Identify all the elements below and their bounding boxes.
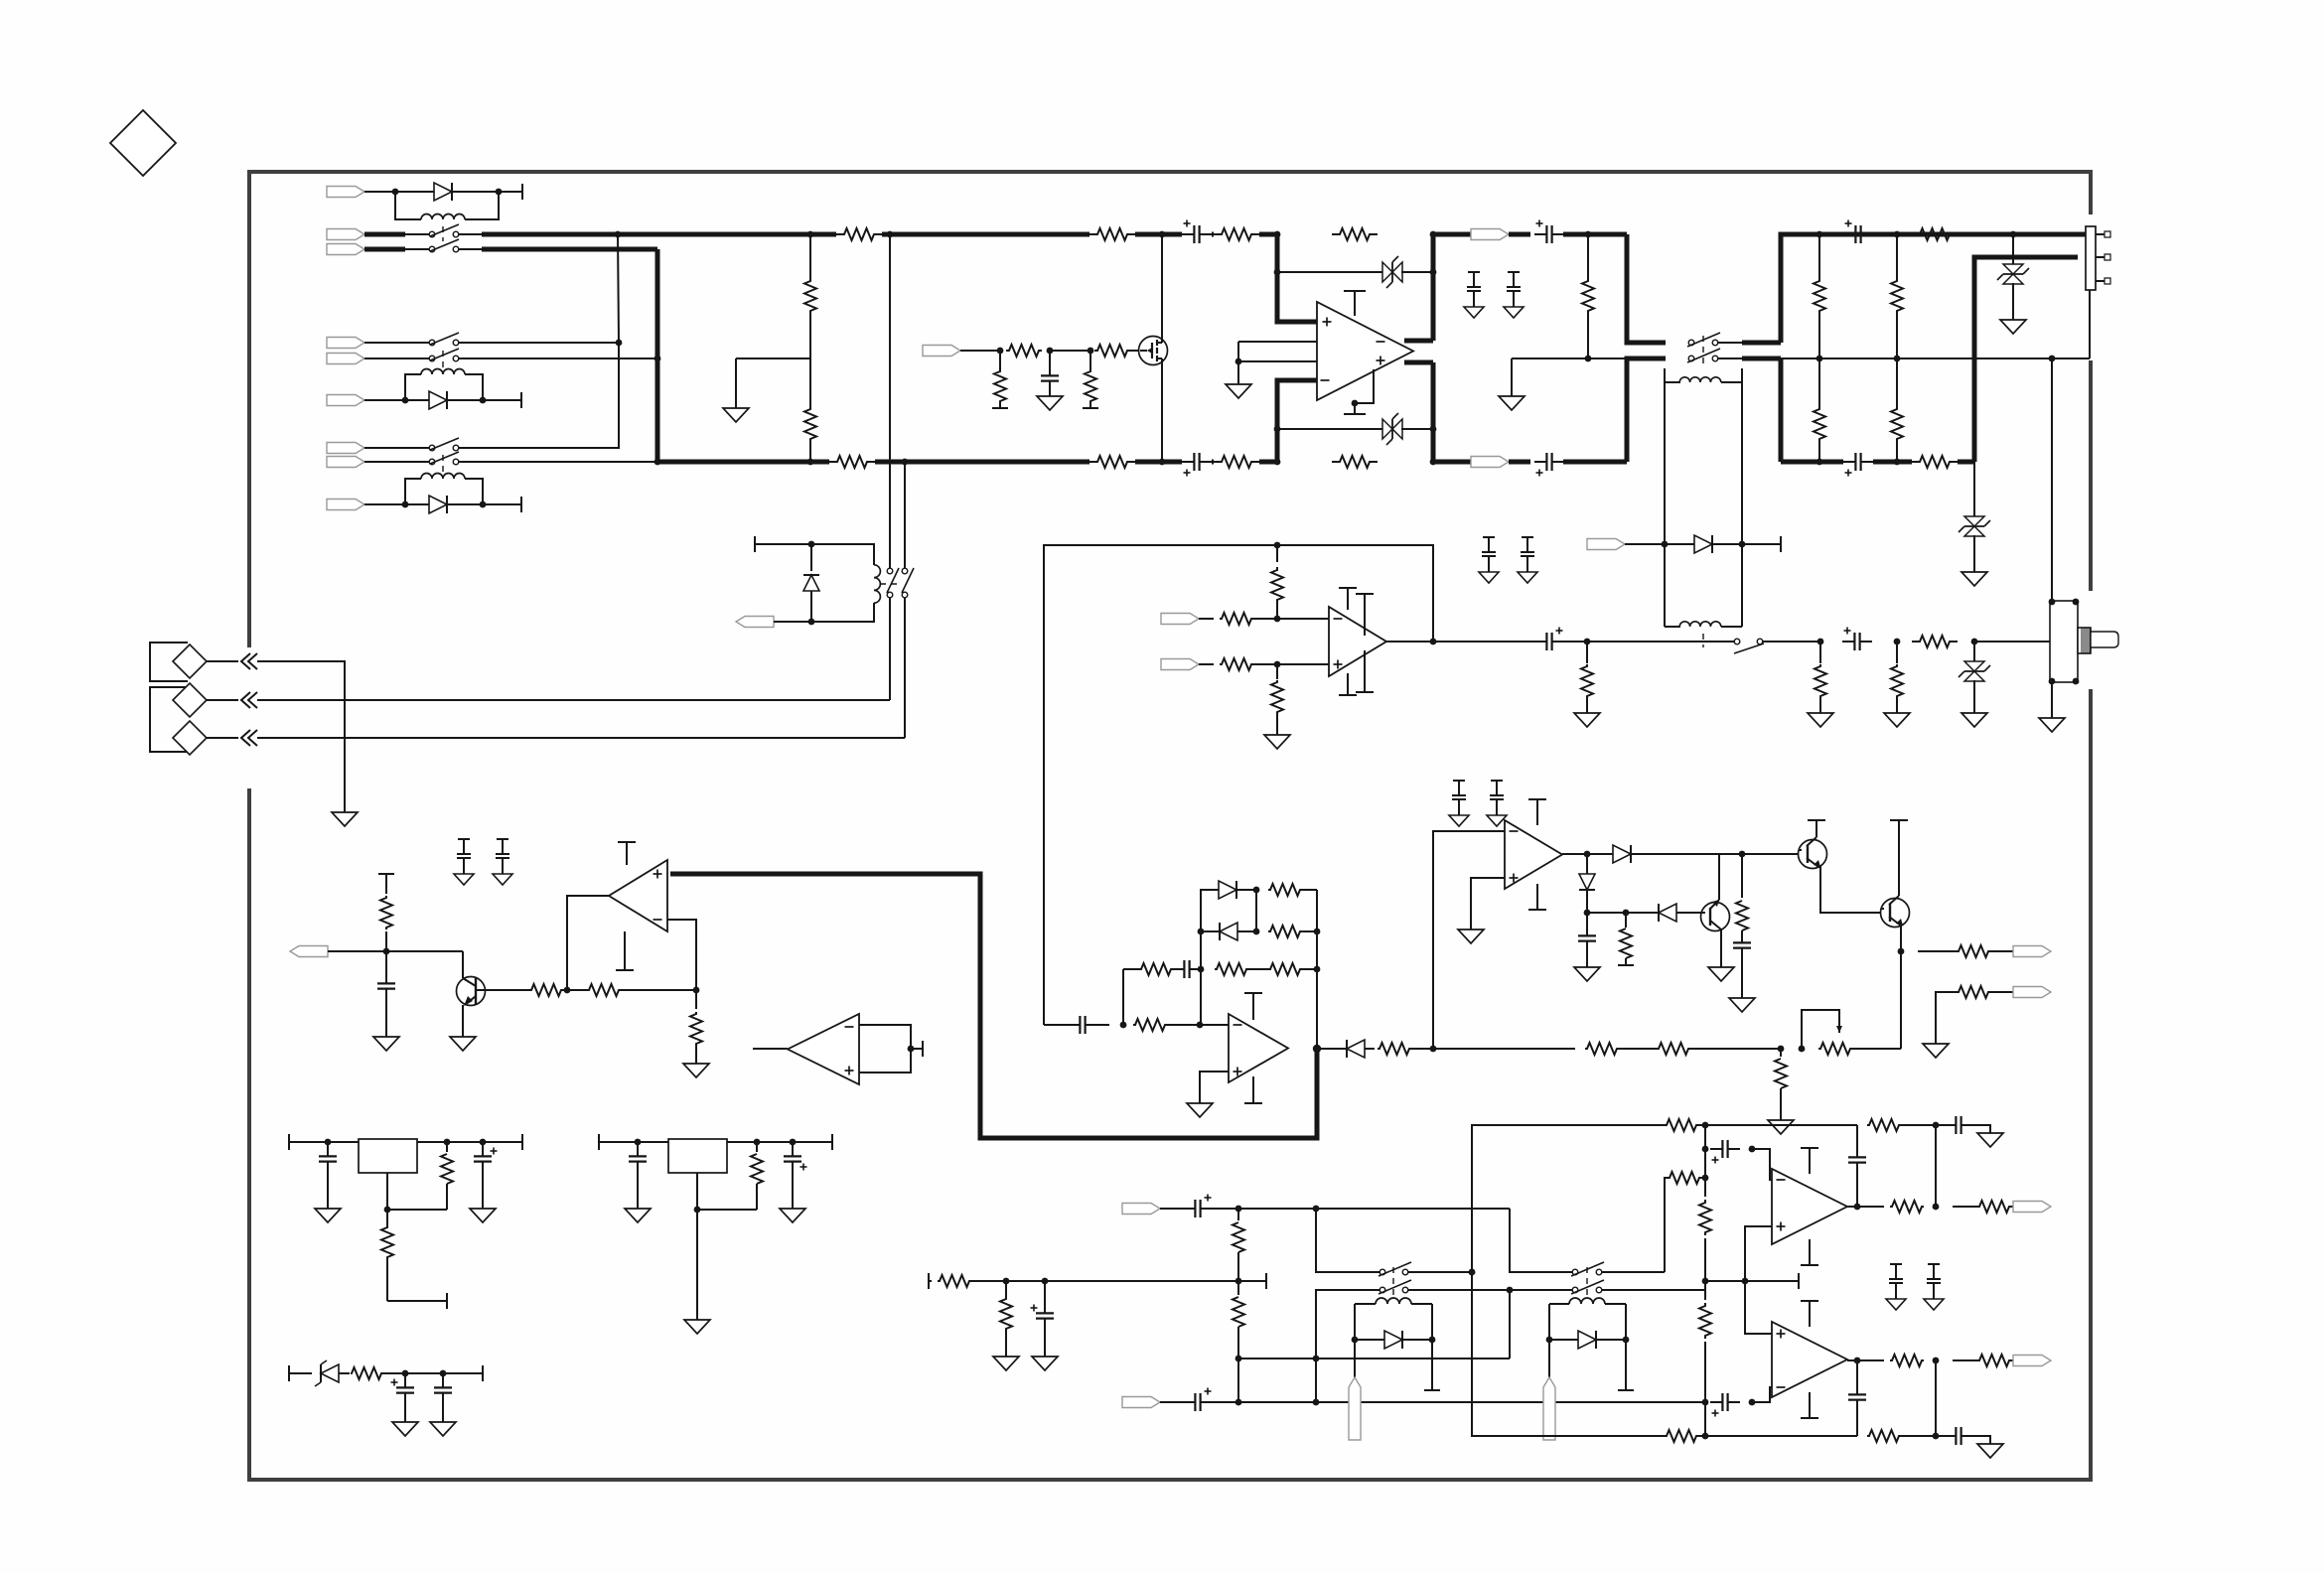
flag U3 in- [1161, 614, 1214, 625]
wire K2b row2 to cold corner [458, 461, 657, 463]
op-amp U3 [1329, 607, 1386, 676]
relay K7 drive [1313, 1304, 1436, 1361]
node mid tap [1742, 1278, 1749, 1285]
node U8 out [1854, 1358, 1861, 1364]
resistor R_hp_shunt [1581, 642, 1593, 713]
node U5 out [1584, 851, 1591, 858]
resistor R_hpoutB [1936, 986, 2013, 1044]
resistor R_xlr_shunt1 [1814, 234, 1825, 358]
ground hp3 [1884, 713, 1910, 727]
resistor R_hpoutA [1918, 945, 2013, 957]
flyback diode D_K2b [405, 496, 483, 513]
resistor R_g1 [1006, 345, 1042, 357]
wire K2a row2 to cold [458, 357, 657, 359]
resistor R_U3b [1220, 658, 1329, 670]
node mosfet drain [1159, 231, 1166, 238]
cap C_fb8 [1848, 1360, 1866, 1436]
mid sense right [1781, 357, 2090, 359]
relay K1 contact a [429, 224, 459, 237]
relay K1 coil [395, 192, 499, 219]
U6 minus mark [845, 1026, 854, 1028]
wire xlr bot bus [1781, 460, 1912, 465]
wire col 1717 a [1704, 1149, 1706, 1178]
cap C_out_top [1534, 220, 1588, 244]
chevron P2 [241, 692, 257, 708]
zener ref row [289, 1360, 483, 1386]
feedback bracket [1469, 1125, 1665, 1436]
cap C_VR2in [629, 1142, 647, 1209]
ground zref2 [430, 1422, 456, 1436]
resistor R_Q1b [378, 874, 394, 951]
relay K4 contact a [1687, 333, 1720, 347]
input flag IN2- [327, 354, 430, 364]
U8 minus mark [1777, 1386, 1786, 1388]
U1 plus in mark [1323, 318, 1332, 327]
ground div cap [1032, 1357, 1058, 1370]
relay K7 contacts [1379, 1262, 1411, 1294]
U1 power pin top [1344, 291, 1366, 316]
resistor R_out_shunt_top [1582, 234, 1594, 358]
node x623 row1 [616, 340, 623, 347]
wire K7 row1 right [1408, 1269, 1475, 1276]
resistor R_U3gnd [1271, 664, 1283, 735]
cap C_out7 [1936, 1116, 1990, 1134]
ground zref1 [392, 1422, 418, 1436]
resistor R_pad1 [804, 234, 816, 358]
pin connector K7 [1349, 1340, 1361, 1440]
cap C_out8 [1936, 1427, 1990, 1445]
ground hp shunt [1574, 713, 1600, 727]
node mid sense left [1585, 356, 1592, 362]
relay K8 contacts [1571, 1262, 1604, 1294]
wire hot bus from K1 [458, 233, 1277, 235]
flag OUT- net [1433, 457, 1530, 468]
transistor Q4 [1881, 820, 1910, 951]
wire VR1 out rail [417, 1134, 522, 1150]
cap C_div [1031, 1281, 1055, 1357]
ground HP B [1923, 1044, 1949, 1058]
input flag IN1+ [327, 229, 430, 240]
ground U4 plus [1187, 1103, 1213, 1117]
node hp c [1894, 639, 1901, 645]
terminal K1 [499, 184, 522, 200]
op-amp U4 [1229, 1014, 1288, 1082]
node VR1 in [325, 1139, 332, 1146]
node U1 in- corner [1274, 459, 1281, 466]
decoupling cap pair E [1449, 781, 1507, 826]
decoupling cap pair C [454, 839, 512, 885]
cap C_VR2out [784, 1142, 807, 1209]
U1 out- mark [1377, 341, 1385, 343]
resistor R_c1 [486, 984, 567, 996]
U1 minus in mark [1321, 379, 1330, 381]
cap C_out_bot [1534, 453, 1588, 477]
terminal K45 [1742, 536, 1781, 552]
cap C_xlr_top [1843, 220, 1873, 244]
relay K2b drive flag [327, 500, 405, 510]
transistor Q2 [1799, 820, 1882, 913]
U2 minus wire [667, 920, 696, 990]
node tvs top [2010, 231, 2017, 238]
flag HP out A [2013, 946, 2051, 957]
relay K6 contact 2 [902, 568, 914, 598]
ground U1 vocm [1226, 384, 1251, 398]
cap C_in7 [1710, 1140, 1740, 1164]
relay K6 coil [874, 565, 880, 603]
wire Q3 collector [1720, 937, 1722, 967]
resistor R_hp3 [1891, 642, 1903, 713]
node sense r1 [1816, 356, 1823, 362]
relay K4 coil box [1665, 368, 1742, 382]
node U3 out [1430, 639, 1437, 645]
node retA a [1235, 1206, 1242, 1213]
ground Z5 [1961, 713, 1987, 727]
U4 minus mark [1234, 1024, 1242, 1026]
ground gate cap [1037, 396, 1063, 410]
node hp d [1971, 639, 1978, 645]
resistor R_col7 [1699, 1178, 1711, 1281]
relay K8 dashed [1586, 1267, 1588, 1297]
diode D_K6 [803, 544, 819, 622]
relay K8 drive [1546, 1304, 1630, 1349]
ctl mid row [1587, 912, 1659, 914]
wire U8 minus [1752, 1387, 1778, 1402]
wire lim to U5minus [1433, 831, 1505, 1049]
op-amp U8 [1772, 1322, 1847, 1397]
wire U5 out [1562, 853, 1587, 855]
node VR1 out [480, 1139, 487, 1146]
wire K8row1 riser [1665, 1178, 1668, 1272]
wire K4 hot drop [1588, 234, 1666, 343]
U7 plus mark [1777, 1222, 1786, 1231]
node mid 1717 [1702, 1278, 1709, 1285]
node gate net 3 [1088, 348, 1094, 355]
op-amp U2 (left-pointing) [609, 860, 667, 931]
wire P1 to ground [257, 661, 345, 812]
node gate net 2 [1047, 348, 1054, 355]
relay K4 contact b [1687, 349, 1720, 362]
XLR connector J2 [2086, 226, 2110, 290]
resistor R_c2 [567, 984, 696, 996]
regulator VR1 [359, 1139, 417, 1173]
wire K6 bottom corner [811, 603, 874, 622]
resistor R_Q2e [1736, 854, 1748, 937]
node cold corner [654, 459, 661, 466]
node K1 drive [392, 189, 399, 196]
pin connector K8 [1543, 1340, 1555, 1440]
wire cold bus vertical [657, 249, 1277, 462]
TVS Z3 [1997, 234, 2029, 320]
relay K2a contact a [429, 333, 459, 346]
ground P1 [332, 812, 358, 826]
wire K4 cold drop [1588, 358, 1666, 462]
limiter row C [1139, 960, 1320, 978]
U2 output wire [567, 896, 609, 990]
relay K6 contact 1 [887, 568, 899, 598]
node fb7 b [1933, 1122, 1940, 1129]
node hp b [1817, 639, 1824, 645]
U5 power pins [1528, 799, 1546, 910]
resistor R_fb7b [1867, 1119, 1901, 1131]
wire U8 out [1847, 1359, 1884, 1361]
resistor R_bus_top1 [836, 228, 882, 240]
relay K2b contact a [429, 438, 459, 451]
node pad top [807, 231, 814, 238]
node VR2 adj2 [694, 1207, 701, 1214]
relay K2a drive flag [327, 395, 405, 406]
resistor R_fb8 [1665, 1430, 1857, 1442]
relay K7 dashed [1392, 1267, 1394, 1297]
node box top [1274, 542, 1281, 549]
wire K4 out hot [1717, 234, 2091, 343]
node fb7 a [1702, 1122, 1709, 1129]
resistor R_fb_top [1332, 228, 1378, 240]
U7 minus mark [1777, 1179, 1786, 1181]
cap C_ctl [1578, 913, 1596, 967]
wire VR2 out rail [727, 1134, 832, 1150]
U1 vocm wires [1235, 342, 1317, 384]
node U4 minus node [1197, 1022, 1204, 1029]
resistor R_xlr_bot [1912, 456, 1958, 468]
U5 minus mark [1510, 830, 1519, 832]
wire K8 row1 left [1510, 1209, 1572, 1272]
wire VR2 gnd [696, 1210, 698, 1320]
mid tick row [1705, 1273, 1799, 1289]
limiter col right [1316, 890, 1318, 1049]
resistor R_U3a [1220, 613, 1329, 625]
wire fb7 drop [1901, 1125, 1939, 1210]
relay K5 contact [1734, 639, 1764, 653]
relay K2a dashed [442, 350, 444, 367]
resistor R_bus_bot1 [829, 456, 875, 468]
wire col 1717 top [1704, 1125, 1706, 1149]
node K4 drive b [1739, 541, 1746, 548]
node fb8 b [1933, 1433, 1940, 1440]
TVS Z4 [1959, 462, 1990, 572]
resistor R_ctl [1618, 913, 1634, 965]
node U3 minus [1274, 616, 1281, 623]
node K2a drive b [480, 397, 487, 404]
wire VR1 adj [387, 1173, 447, 1210]
node VR2 adj1 [754, 1139, 761, 1146]
wire Q3 top [1718, 854, 1720, 893]
resistor R_hp2 [1815, 642, 1826, 713]
ground Z3 [2000, 320, 2026, 334]
node cap8 [1702, 1399, 1709, 1406]
mute column right [902, 459, 909, 569]
cap C_in8 [1710, 1393, 1740, 1417]
long ctl line [1433, 1043, 1781, 1055]
comparator U6 (left-pointing) [753, 1014, 859, 1084]
resistor R_xlr_top [1912, 228, 1958, 240]
node pot left [1778, 1046, 1785, 1053]
wire K7 row2 right [1408, 1287, 1513, 1294]
resistor R_lim [1378, 1043, 1433, 1055]
decoupling cap pair B [1479, 537, 1537, 583]
resistor R_out8 [1890, 1355, 1924, 1366]
ground Z4 [1961, 572, 1987, 586]
resistor R_bus_top2 [1089, 228, 1135, 240]
U1 power pin bottom [1344, 369, 1374, 414]
ground div [993, 1357, 1019, 1370]
ground Q3 [1708, 967, 1734, 981]
limiter diode row B [1198, 890, 1321, 940]
bracket chassis 1 [150, 643, 188, 681]
flyback diode D_K45 [1665, 535, 1742, 553]
relay K1 drive flag [327, 187, 395, 198]
flyback diode D_K2a [405, 391, 483, 409]
jack J3 [2049, 599, 2118, 685]
wire U8 plus [1745, 1281, 1778, 1334]
vertical bus x622 [458, 234, 619, 448]
node U2 minus junction [693, 987, 700, 994]
node ctl b [1739, 851, 1746, 858]
U1 out+ stub [1404, 360, 1433, 365]
flag RET A [1122, 1204, 1184, 1215]
ground U2 [683, 1064, 709, 1077]
diamond reference mark [110, 110, 176, 176]
U6 plus mark [845, 1067, 854, 1075]
resistor R_VR1 [441, 1142, 453, 1210]
cap C_fb7 [1848, 1125, 1866, 1207]
cap C_xlr_bot [1843, 453, 1873, 477]
relay K2a contact b [429, 349, 459, 361]
node mix7 [1702, 1175, 1709, 1182]
ground jack [2039, 718, 2065, 732]
wire K4 out cold [1717, 358, 1781, 462]
node zref b [440, 1370, 447, 1377]
node K6 b [808, 619, 815, 626]
resistor R_fb7 [1665, 1119, 1857, 1131]
node U4 out [1313, 1045, 1321, 1053]
U8 plus mark [1777, 1330, 1786, 1339]
wire jack gnd [2051, 681, 2053, 718]
terminal K7 [1424, 1340, 1440, 1390]
relay K4 dashed [1702, 336, 1704, 367]
node ctl mid [1584, 910, 1591, 917]
node hot bus x622 [615, 231, 622, 238]
flag RET B [1122, 1397, 1184, 1408]
mute column right b [904, 597, 906, 738]
sheet border frame (with connector gaps) [249, 172, 2091, 1480]
wire pad mid [736, 358, 810, 408]
ground U5 plus [1458, 929, 1484, 943]
relay K2b dashed [442, 455, 444, 472]
resistor R_U3fb [1271, 545, 1283, 619]
node mosfet source [1159, 459, 1166, 466]
relay K5 coil [1665, 622, 1742, 627]
U4 plus mark [1234, 1068, 1242, 1076]
wire K8 row2 left [1510, 1289, 1572, 1291]
wire col 1717 bottom [1702, 1402, 1709, 1439]
mosfet channel wire [1161, 234, 1163, 462]
node pot wiper [1799, 1046, 1806, 1053]
U1 out vertical top [1430, 231, 1437, 341]
flag mute drive [923, 346, 1000, 357]
wire xlr top bus [1819, 232, 2086, 237]
diamond connector P1 [173, 644, 238, 678]
ground mid sense [1499, 358, 1525, 410]
ground pot [1768, 1120, 1794, 1134]
cap C_VR1in [319, 1142, 337, 1209]
flag OUT+ net [1433, 229, 1530, 240]
diode D_lim [1317, 1040, 1375, 1058]
wire Q4 to pot [1900, 951, 1902, 1049]
node ret mid [1235, 1356, 1242, 1362]
ground C_VR1in [315, 1209, 341, 1222]
flag monitor in [290, 946, 386, 957]
trimmer RV1 [1802, 1010, 1901, 1055]
node cap7 [1702, 1146, 1709, 1153]
resistor R_g3 [1094, 345, 1139, 357]
wire U4 plus gnd [1200, 1072, 1229, 1103]
flag U3 in+ [1161, 659, 1214, 670]
transistor Q1 [386, 951, 486, 1037]
node cold g2 tap [654, 356, 661, 362]
wire K8 row2 drop [1509, 1290, 1511, 1358]
op-amp U7 [1772, 1169, 1847, 1244]
wire retB [1238, 1401, 1705, 1403]
limiter col left [1123, 931, 1201, 1025]
ground C_out8 [1977, 1444, 2003, 1458]
wire K8 row2 right [1602, 1289, 1705, 1291]
transistor Q3 [1701, 893, 1730, 937]
wire hp jack [1974, 641, 2050, 643]
terminal K8 [1618, 1340, 1634, 1390]
U1 out- stub [1404, 339, 1433, 344]
limiter diode row A [1201, 881, 1317, 931]
node cap7 b [1749, 1146, 1756, 1153]
node K2a drive [402, 397, 409, 404]
terminal K6 top [755, 536, 811, 552]
cap C_retA [1183, 1195, 1238, 1218]
resistor R_bus_top3 [1214, 228, 1259, 240]
cap C_g shunt [1041, 351, 1059, 396]
node div a [1003, 1278, 1010, 1285]
resistor R_out7b [1953, 1201, 2013, 1213]
wire fb8 drop [1901, 1358, 1939, 1436]
node cap8 b [1749, 1399, 1756, 1406]
U3 power pins [1339, 588, 1374, 695]
chevron P1 [241, 653, 257, 669]
wire VR1 adj tick [387, 1293, 447, 1309]
node VR1 adj2 [384, 1207, 391, 1214]
ground Q1 emitter [450, 1037, 476, 1051]
rail VR1 [289, 1134, 359, 1150]
wire ret B col [1235, 1358, 1242, 1405]
relay K2b contact b [429, 452, 459, 465]
relay K2b coil [405, 474, 483, 504]
resistor R_out7 [1890, 1201, 1924, 1213]
terminal K2b [483, 497, 521, 512]
node U3 plus [1274, 661, 1281, 668]
cap C_hp2 [1842, 628, 1872, 651]
node U2 out junction [564, 987, 571, 994]
bracket chassis 2 [150, 687, 188, 752]
mid sense wire [1512, 357, 1627, 359]
resistor R_VR1adj [381, 1210, 393, 1301]
flag OUT 8 [2013, 1356, 2051, 1366]
flag K6 drive [736, 617, 811, 628]
node Q4 emitter [1898, 948, 1905, 955]
TVS Z2 row [1274, 413, 1437, 445]
ground C_Q1 [373, 1037, 399, 1051]
resistor R_mix7 [1668, 1172, 1705, 1184]
resistor R_g1 shunt [992, 351, 1008, 408]
wire jack sleeve [2051, 358, 2053, 602]
U2 power pins [616, 842, 636, 970]
relay K1 contact b [429, 239, 459, 252]
